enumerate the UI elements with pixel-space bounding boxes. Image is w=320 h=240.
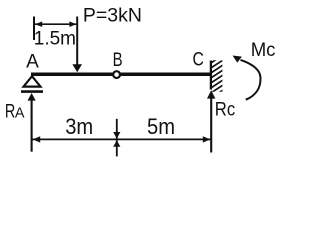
svg-text:P=3kN: P=3kN xyxy=(83,5,142,27)
svg-text:Rc: Rc xyxy=(215,99,236,121)
svg-text:A: A xyxy=(15,104,25,121)
svg-text:R: R xyxy=(5,101,15,122)
svg-text:1.5m: 1.5m xyxy=(34,28,76,49)
svg-text:B: B xyxy=(113,50,123,71)
svg-text:Mc: Mc xyxy=(251,39,276,61)
svg-text:C: C xyxy=(193,50,204,71)
svg-text:5m: 5m xyxy=(147,114,175,139)
svg-text:3m: 3m xyxy=(65,114,93,139)
svg-text:A: A xyxy=(26,51,39,72)
